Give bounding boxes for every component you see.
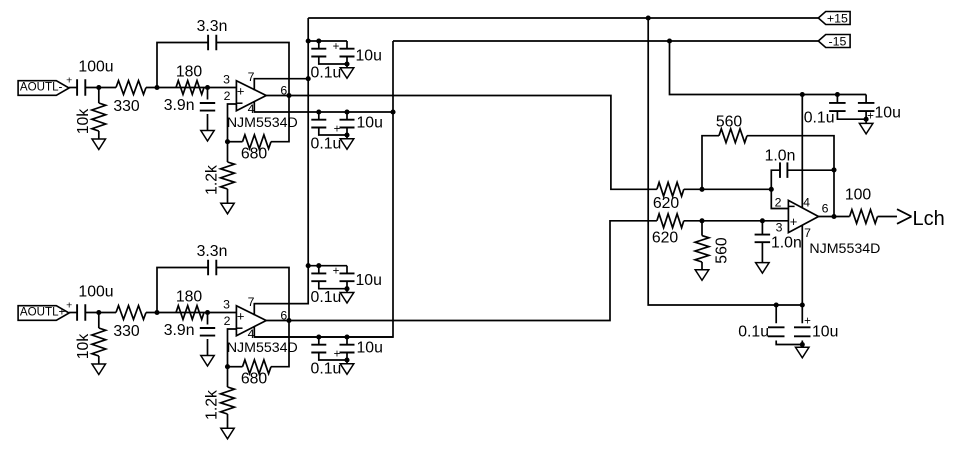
- svg-text:10u: 10u: [812, 323, 838, 340]
- svg-text:+15: +15: [827, 12, 848, 26]
- pin 3 label U2: [223, 298, 230, 312]
- resistor 180 U2: [176, 289, 204, 320]
- resistor 330 U2: [113, 306, 146, 340]
- pin 4 label U2: [248, 327, 255, 341]
- wire U2 output to R620b: [266, 221, 657, 321]
- resistor 620 b: [652, 214, 789, 246]
- svg-text:1.0n: 1.0n: [765, 148, 796, 165]
- capacitor 1.0n feedback: [765, 148, 834, 190]
- svg-text:0.1u: 0.1u: [311, 65, 342, 82]
- svg-text:AOUTL-: AOUTL-: [20, 80, 63, 93]
- bypass capacitors 0.1u/10u U1 V+: [311, 38, 382, 81]
- resistor 330 U1: [113, 81, 146, 115]
- svg-text:680: 680: [241, 146, 268, 163]
- wire R330 to node B U2: [146, 312, 236, 314]
- resistor 100: [845, 187, 897, 224]
- svg-text:620: 620: [652, 229, 679, 246]
- junction fb node U2: [225, 364, 230, 369]
- pin 2 label U1: [224, 89, 231, 103]
- bypass U3 V- ground: [859, 123, 873, 133]
- svg-text:NJM5534D: NJM5534D: [809, 241, 880, 257]
- svg-text:3.3n: 3.3n: [197, 18, 228, 35]
- svg-text:+: +: [333, 266, 340, 278]
- junction output fb U2: [286, 318, 291, 323]
- resistor 680 U2: [228, 321, 290, 388]
- svg-text:-15: -15: [828, 35, 846, 49]
- junction fb cap/560: [831, 167, 836, 172]
- wire +15 rail horizontal: [308, 17, 818, 19]
- wire C100u to node A U2: [85, 312, 116, 314]
- node B junction U1: [154, 85, 159, 90]
- wire pin4 stub U1: [254, 101, 393, 112]
- pin 7 label U3: [804, 226, 811, 240]
- svg-text:NJM5534D: NJM5534D: [227, 115, 298, 131]
- resistor 10k U2: [75, 313, 106, 365]
- ground of 1.2k U2: [221, 428, 234, 439]
- wire bypass pair3 rail tap: [308, 265, 347, 267]
- resistor 620 a: [653, 182, 771, 212]
- polarity + of C100u U1: [66, 74, 72, 86]
- pin 4 label U3: [803, 196, 810, 210]
- svg-text:180: 180: [176, 289, 203, 306]
- svg-text:560: 560: [714, 237, 731, 264]
- ground of 10k U1: [92, 139, 106, 150]
- wire +15 branch to U3 bypass: [648, 18, 802, 305]
- capacitor 3.3n feedback U1: [157, 18, 289, 96]
- svg-text:3.9n: 3.9n: [164, 97, 195, 114]
- resistor 680 U1: [228, 96, 290, 163]
- node C junction U1: [205, 85, 210, 90]
- svg-text:NJM5534D: NJM5534D: [227, 340, 298, 356]
- pin 2 label U2: [224, 314, 231, 328]
- svg-text:180: 180: [176, 64, 203, 81]
- svg-text:+: +: [804, 315, 811, 327]
- capacitor 100u U1: [77, 59, 113, 96]
- capacitor 100u U2: [77, 284, 113, 321]
- bypass capacitors 0.1u/10u U2 V-: [311, 334, 383, 377]
- wire pin2 input U2: [228, 329, 237, 367]
- port AOUTL+: [18, 305, 69, 320]
- junction -15 at U3 pin4 branch: [800, 92, 805, 97]
- svg-text:+: +: [867, 111, 874, 123]
- svg-text:680: 680: [241, 371, 268, 388]
- svg-text:10k: 10k: [75, 109, 92, 135]
- wire pin2 input U1: [228, 104, 237, 142]
- bypass U3 V+ ground: [796, 347, 810, 358]
- wire bypass pair1 rail tap: [308, 40, 347, 42]
- wire U3 output: [819, 216, 850, 218]
- wire U1 output to R620a: [266, 96, 657, 190]
- ground of 3.9n U1: [201, 131, 214, 142]
- svg-text:1.2k: 1.2k: [204, 165, 221, 195]
- svg-text:0.1u: 0.1u: [311, 289, 342, 306]
- pin 7 label U1: [248, 70, 255, 84]
- svg-text:+: +: [237, 84, 245, 99]
- bypass capacitors 0.1u/10u U1 V- ground: [340, 139, 354, 150]
- svg-text:6: 6: [822, 202, 829, 216]
- junction output fb U1: [286, 93, 291, 98]
- svg-text:1.2k: 1.2k: [204, 390, 221, 420]
- port AOUTL-: [18, 80, 69, 95]
- junction fb node U1: [225, 139, 230, 144]
- op-amp UU1 NJM5534D: [227, 81, 298, 131]
- pin 2 label U3: [775, 196, 782, 210]
- svg-text:10u: 10u: [356, 48, 382, 65]
- wire R330 to node B U1: [146, 87, 236, 89]
- svg-text:0.1u: 0.1u: [738, 323, 769, 340]
- wire -15 branch to U3 bypass: [670, 41, 867, 95]
- svg-text:10u: 10u: [356, 272, 382, 289]
- svg-text:3: 3: [223, 298, 230, 312]
- junction -15 to U3 branch: [667, 38, 672, 43]
- wire to U3 pin2: [771, 189, 788, 208]
- svg-text:2: 2: [775, 196, 782, 210]
- junction U3 inverting node: [769, 187, 774, 192]
- junction R620b/R560b: [699, 218, 704, 223]
- output arrow Lch: [897, 208, 945, 230]
- pin 6 label U2: [280, 309, 287, 323]
- bypass capacitors 0.1u/10u U2 V- ground: [340, 364, 354, 375]
- svg-text:3: 3: [223, 73, 230, 87]
- junction pin4 -15 U1: [390, 109, 395, 114]
- svg-text:10k: 10k: [75, 334, 92, 360]
- junction U3 output: [831, 214, 836, 219]
- wire U3 pin4 stub: [801, 95, 803, 208]
- resistor 560 to ground: [695, 221, 730, 270]
- svg-text:2: 2: [224, 314, 231, 328]
- svg-text:10u: 10u: [357, 340, 383, 357]
- svg-text:100u: 100u: [78, 284, 113, 301]
- svg-text:1.0n: 1.0n: [771, 235, 802, 252]
- capacitor 3.9n U1: [164, 88, 215, 131]
- resistor 1.2k U2: [204, 367, 235, 429]
- wire port to C100u U1: [69, 87, 77, 89]
- svg-text:+: +: [237, 309, 245, 324]
- svg-text:0.1u: 0.1u: [311, 136, 342, 153]
- bypass capacitors 0.1u/10u U3 V+: [738, 302, 838, 347]
- wire -15 left vertical: [254, 41, 393, 337]
- pin 3 label U3: [776, 221, 783, 235]
- resistor 560 feedback: [702, 114, 834, 190]
- svg-text:0.1u: 0.1u: [804, 109, 835, 126]
- svg-text:10u: 10u: [357, 115, 383, 132]
- pin 6 label U1: [280, 84, 287, 98]
- svg-text:+: +: [790, 214, 798, 229]
- wire C100u to node A U1: [85, 87, 116, 89]
- polarity + of C100u U2: [66, 299, 72, 311]
- svg-text:330: 330: [113, 323, 140, 340]
- pin 6 label U3: [822, 202, 829, 216]
- ground of 1.0n: [756, 263, 770, 274]
- svg-text:+: +: [334, 123, 341, 135]
- svg-text:620: 620: [653, 195, 680, 212]
- svg-text:3.9n: 3.9n: [164, 322, 195, 339]
- resistor 10k U1: [75, 88, 106, 140]
- wire -15 rail horizontal: [393, 40, 818, 42]
- bypass capacitors 0.1u/10u U1 V-: [311, 109, 383, 152]
- junction +15 to U3 branch: [646, 15, 651, 20]
- junction 1.0n tap: [760, 218, 765, 223]
- node B junction U2: [154, 310, 159, 315]
- wire +15 left rail vertical: [254, 18, 308, 304]
- bypass capacitors 0.1u/10u U2 V+: [311, 263, 382, 306]
- op-amp U3 NJM5534D: [788, 200, 880, 257]
- svg-text:4: 4: [803, 196, 810, 210]
- wire fb to output: [833, 170, 835, 217]
- resistor 180 U1: [176, 64, 204, 95]
- junction pair1 rail: [306, 38, 311, 43]
- svg-text:10u: 10u: [875, 105, 901, 122]
- power flag -15: [818, 35, 850, 49]
- svg-text:+: +: [333, 41, 340, 53]
- wire pin7 stub U2: [254, 304, 308, 316]
- node A junction U1: [96, 85, 101, 90]
- svg-text:560: 560: [716, 114, 743, 131]
- ground of 560: [695, 270, 709, 281]
- capacitor 3.3n feedback U2: [157, 243, 289, 321]
- svg-text:100u: 100u: [78, 59, 113, 76]
- bypass capacitors 0.1u/10u U3 V-: [804, 92, 901, 126]
- svg-text:AOUTL+: AOUTL+: [20, 305, 66, 318]
- junction R620a/R560: [699, 187, 704, 192]
- junction pair3 rail: [306, 263, 311, 268]
- ground of 1.2k U1: [221, 203, 234, 214]
- power flag +15: [818, 12, 850, 26]
- svg-text:3.3n: 3.3n: [197, 243, 228, 260]
- op-amp UU2 NJM5534D: [227, 306, 298, 356]
- svg-text:2: 2: [224, 89, 231, 103]
- svg-text:3: 3: [776, 221, 783, 235]
- capacitor 3.9n U2: [164, 313, 215, 356]
- svg-text:+: +: [334, 348, 341, 360]
- wire pin7 stub U1: [254, 79, 308, 91]
- bypass capacitors 0.1u/10u U1 V+ ground: [340, 68, 354, 79]
- node A junction U2: [96, 310, 101, 315]
- pin 3 label U1: [223, 73, 230, 87]
- wire pin4 stub U2: [254, 326, 393, 337]
- ground of 10k U2: [92, 364, 106, 375]
- svg-text:+: +: [66, 74, 72, 86]
- svg-text:0.1u: 0.1u: [311, 361, 342, 378]
- svg-text:+: +: [66, 299, 72, 311]
- svg-text:100: 100: [845, 187, 872, 204]
- svg-text:330: 330: [113, 98, 140, 115]
- pin 7 label U2: [248, 295, 255, 309]
- resistor 1.2k U1: [204, 142, 235, 204]
- pin 4 label U1: [248, 102, 255, 116]
- svg-text:7: 7: [804, 226, 811, 240]
- ground of 3.9n U2: [201, 356, 214, 367]
- wire port to C100u U2: [69, 312, 77, 314]
- capacitor 1.0n to ground: [755, 221, 802, 263]
- node C junction U2: [205, 310, 210, 315]
- bypass capacitors 0.1u/10u U2 V+ ground: [340, 293, 354, 304]
- wire U3 pin7 stub: [801, 225, 803, 305]
- junction pin7 to +15 rail U1: [306, 76, 311, 81]
- svg-text:Lch: Lch: [913, 208, 945, 230]
